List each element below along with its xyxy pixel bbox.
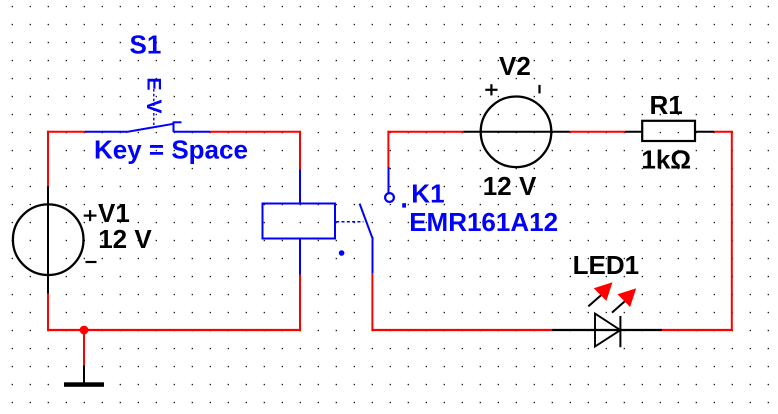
svg-text:R1: R1 — [650, 90, 683, 120]
svg-text:V2: V2 — [499, 51, 531, 81]
svg-text:S1: S1 — [130, 30, 162, 60]
svg-text:1kΩ: 1kΩ — [641, 145, 691, 175]
svg-text:EMR161A12: EMR161A12 — [409, 207, 558, 237]
svg-text:K1: K1 — [411, 178, 444, 208]
svg-text:LED1: LED1 — [573, 250, 639, 280]
svg-text:12 V: 12 V — [483, 171, 537, 201]
svg-text:Key = Space: Key = Space — [94, 135, 248, 165]
svg-text:12 V: 12 V — [98, 224, 152, 254]
svg-text:V: V — [142, 99, 165, 113]
svg-text:E: E — [143, 77, 165, 90]
